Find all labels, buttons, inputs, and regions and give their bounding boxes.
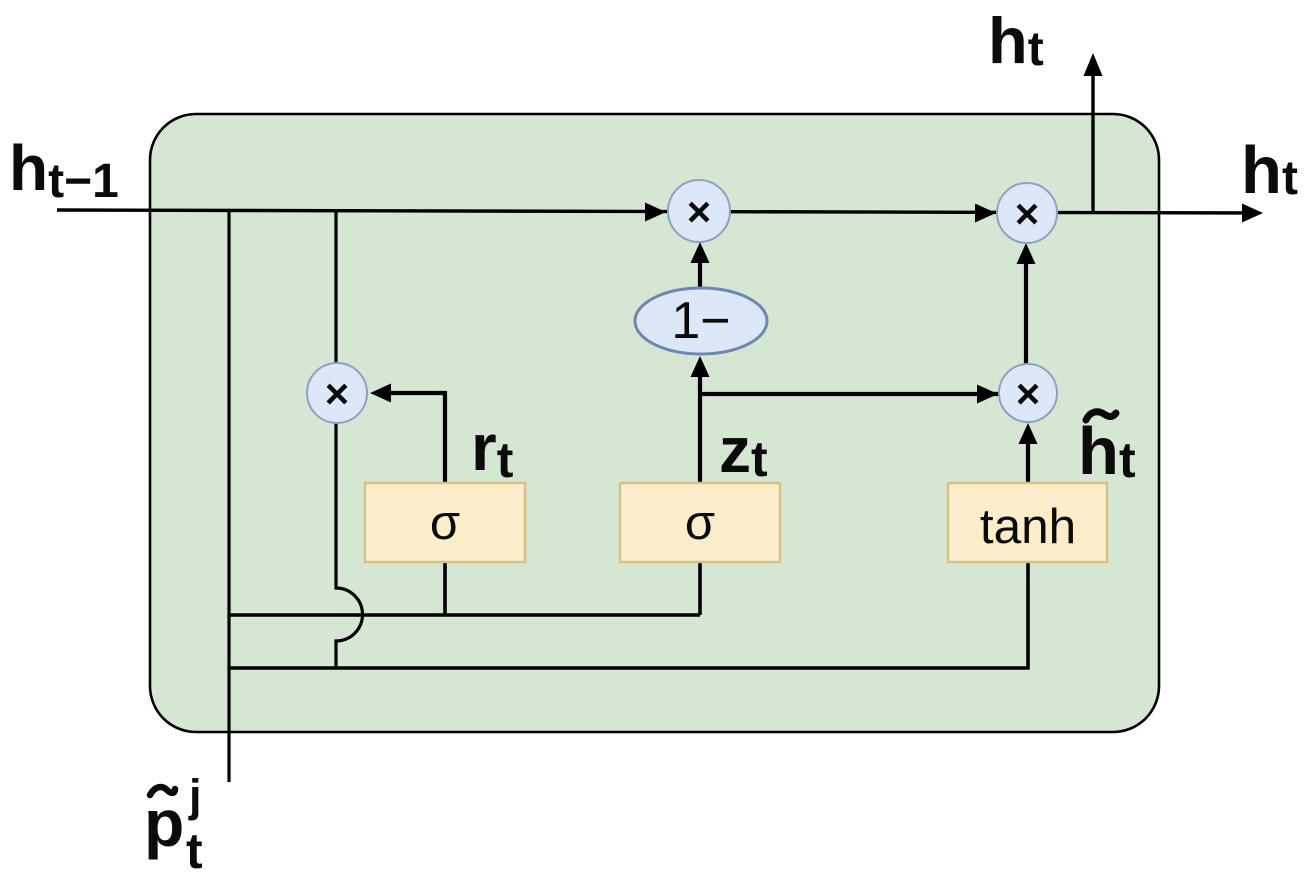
tilde over h_t [1086,412,1116,420]
arrowhead into left multiplier [370,384,391,403]
arrowhead into right middle multiplier [977,385,998,404]
wire: right middle multiplier up to top right multiplier [1024,250,1028,364]
svg-text:ht: ht [1241,133,1298,208]
wire: sigma z box bottom stub [698,562,702,615]
wire: h_t output arrow going up [1091,60,1094,212]
arrowhead into 1- ellipse [691,356,710,377]
arrowhead on main line into top right multiplier [975,204,996,223]
arrowhead into right middle multiplier from below [1019,423,1038,444]
wire: main h line from h_{t-1} to h_t [57,210,1258,213]
wire: z_t output from sigma box up to 1- ellipse [698,362,702,484]
wire: sigma r box bottom stub [443,562,447,615]
arrowhead at right end of main line [1242,204,1263,223]
wire: r_t output from sigma box to left multiplier [378,393,445,484]
wire: vertical branch x=336 lower segment with hop over horizontal wire [336,421,363,669]
sigma gate box z [620,483,780,562]
arrowhead into top middle multiplier [691,242,710,263]
arrowhead into top right multiplier from below [1017,243,1036,264]
GRU cell body [150,114,1159,732]
svg-text:tanh: tanh [980,499,1076,554]
wire: horizontal gate-input wire y=615 [229,613,700,617]
multiplier node: right middle [999,364,1057,422]
wire: input vertical at x=229 (p tilde input) [227,210,230,782]
wire: tanh output up to right middle multiplier [1026,430,1030,484]
tilde over p [150,787,175,795]
arrowhead on main line into top middle multiplier [645,203,666,222]
svg-text:×: × [687,188,712,235]
svg-text:σ: σ [685,496,715,550]
wire: z_t branch to right middle multiplier [700,392,1000,396]
arrowhead h_t up [1084,53,1103,76]
multiplier node: left (reset) [307,363,367,423]
wire: 1- ellipse output to top middle multiplier [698,248,702,288]
svg-text:×: × [1015,190,1040,237]
svg-text:ht−1: ht−1 [9,132,119,208]
svg-text:t: t [186,823,203,879]
multiplier node: top middle [668,180,730,242]
svg-text:×: × [1016,370,1041,417]
sigma gate box r [365,483,525,562]
multiplier node: top right [997,183,1057,243]
1- complement node [635,288,767,354]
svg-text:×: × [325,370,350,417]
wire: horizontal tanh-input wire y=668 [229,563,1028,668]
tanh gate box [948,483,1107,562]
wire: vertical branch x=336 upper segment into multiplier [334,210,337,366]
svg-text:j: j [188,770,202,821]
svg-text:ht: ht [988,4,1044,77]
svg-text:1−: 1− [671,292,730,350]
svg-text:σ: σ [430,496,460,550]
